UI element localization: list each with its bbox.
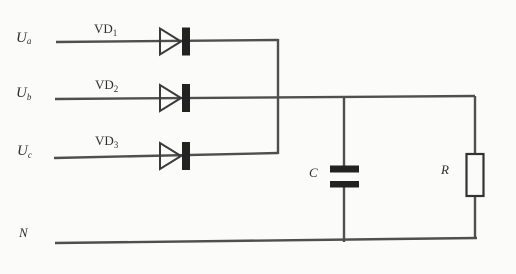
wire resistor bottom branch — [474, 195, 476, 239]
diode VD1 — [160, 28, 190, 56]
svg-text:R: R — [440, 162, 449, 177]
wire N neutral line — [55, 238, 477, 243]
capacitor C plates — [330, 166, 359, 188]
wire Uc phase line — [54, 153, 278, 158]
svg-text:C: C — [309, 165, 318, 180]
wire Ua phase line — [56, 40, 278, 42]
diode VD2 — [160, 84, 190, 112]
diode VD3 — [160, 142, 190, 170]
resistor R body — [467, 154, 484, 196]
wire Ub phase line — [55, 96, 475, 99]
wire cathode bus vertical — [277, 39, 279, 154]
wire resistor top branch — [474, 96, 476, 155]
wire capacitor bottom branch — [343, 186, 345, 242]
wire capacitor top branch — [343, 97, 345, 166]
svg-text:N: N — [18, 225, 29, 240]
